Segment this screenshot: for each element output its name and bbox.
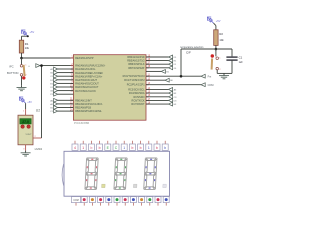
LM34 VOUT pin wire: [33, 137, 42, 139]
wire node to C1: [216, 48, 232, 50]
display digit 3 decimal point: [163, 184, 167, 187]
svg-text:3: 3: [23, 148, 25, 150]
node junction RA0/LM34: [40, 64, 43, 67]
node junction R2/C-F/C1: [215, 48, 218, 51]
node junction C/F select: [180, 75, 183, 78]
terminal C3 (lower-right group): [146, 96, 168, 98]
push button C/F (SW2): [215, 49, 217, 56]
terminal (RA0 sensor input): [36, 64, 40, 68]
svg-text:RA0/AN0/ULPWU/C12IN0-: RA0/AN0/ULPWU/C12IN0-: [75, 65, 105, 68]
terminal E1 (right group): [146, 60, 168, 62]
capacitor C1: [226, 57, 237, 60]
svg-text:COM: COM: [73, 200, 78, 202]
display digit 1 decimal point: [102, 184, 106, 187]
resistor R2: [214, 30, 218, 46]
terminal B0: [146, 79, 165, 81]
svg-text:C3: C3: [174, 97, 178, 99]
svg-text:b: b: [164, 146, 166, 150]
svg-text:RB4/AN11/P1D: RB4/AN11/P1D: [127, 56, 144, 59]
svg-text:10k: 10k: [25, 46, 30, 50]
wire junction to PIC pin RE3/MCLR: [22, 57, 74, 59]
svg-text:1: 1: [23, 110, 25, 112]
svg-text:C1: C1: [239, 55, 243, 59]
terminal B3 (lower-right group): [146, 92, 168, 94]
wire terminal to RA0: [40, 65, 73, 67]
svg-text:RB7/ICSPDAT: RB7/ICSPDAT: [128, 67, 145, 70]
svg-text:4: 4: [74, 146, 76, 150]
display digit 3: [144, 158, 157, 189]
svg-text:VOUT: VOUT: [26, 134, 33, 136]
wire power to LM34 VS pin: [25, 103, 27, 109]
terminal B1 (right, short): [146, 70, 161, 72]
svg-text:RA4/T0CKI/C1OUT: RA4/T0CKI/C1OUT: [75, 79, 97, 82]
svg-text:RC6/TX/CK: RC6/TX/CK: [132, 99, 145, 102]
display top pins with state boxes: [74, 141, 76, 144]
svg-text:1: 1: [123, 146, 125, 150]
svg-text:b: b: [156, 146, 158, 150]
svg-text:RA5/AN4/SS/C2OUT: RA5/AN4/SS/C2OUT: [75, 83, 99, 86]
svg-text:G2: G2: [50, 91, 54, 93]
terminal D1 (right group): [146, 56, 168, 58]
display digit 2: [114, 158, 127, 189]
svg-text:BUTTON: BUTTON: [7, 71, 18, 75]
svg-text:≡: ≡: [28, 65, 30, 68]
svg-text:temperature selection: temperature selection: [180, 46, 204, 49]
svg-text:U2: U2: [36, 109, 40, 113]
svg-text:RA2/AN2/VREF-/CVREF: RA2/AN2/VREF-/CVREF: [75, 72, 103, 75]
svg-text:C1: C1: [50, 111, 54, 113]
wire C1 bottom loop: [231, 60, 233, 73]
svg-text:b: b: [131, 146, 133, 150]
svg-text:RB3/AN9/PGM/C12IN2-: RB3/AN9/PGM/C12IN2-: [75, 110, 102, 113]
LM34 down button: [27, 125, 31, 129]
svg-text:B3: B3: [174, 93, 177, 95]
microcontroller U1 PIC16F886 body: [73, 55, 146, 121]
wire LM34 VOUT up to RA0 node: [41, 66, 43, 138]
display body (7SEG-MPX3): [64, 151, 170, 196]
svg-text:RB1/AN10/P1C/C12IN3-: RB1/AN10/P1C/C12IN3-: [75, 103, 103, 106]
svg-text:RB6/ICSPCLK: RB6/ICSPCLK: [128, 63, 145, 66]
svg-text:RC5/SDO: RC5/SDO: [133, 96, 144, 99]
svg-text:RC3/SCK/SCL: RC3/SCK/SCL: [128, 88, 145, 91]
resistor R1: [19, 40, 23, 53]
wire power to R2: [214, 23, 216, 25]
svg-text:1: 1: [25, 65, 27, 67]
svg-text:LM34: LM34: [35, 147, 43, 151]
svg-text:b: b: [99, 146, 101, 150]
svg-text:D1: D1: [174, 57, 178, 59]
svg-text:RE3/MCLR/VPP: RE3/MCLR/VPP: [75, 57, 94, 60]
LM34 up button: [21, 125, 25, 129]
svg-text:RB0/AN12/INT: RB0/AN12/INT: [75, 99, 92, 102]
svg-text:+5V: +5V: [216, 19, 221, 23]
U1 left pin stubs: [71, 57, 74, 59]
svg-text:1: 1: [82, 146, 84, 150]
power terminal +5V (above U2): [19, 97, 25, 103]
svg-text:2: 2: [219, 69, 221, 71]
wire R1 bottom to junction: [21, 53, 23, 58]
display digit 1: [85, 158, 98, 189]
svg-text:+5V: +5V: [27, 100, 32, 104]
svg-text:PIC16F886: PIC16F886: [74, 121, 90, 125]
svg-text:1: 1: [148, 146, 150, 150]
display digit 2 decimal point: [133, 184, 137, 187]
svg-text:+5V: +5V: [30, 30, 35, 34]
svg-text:b: b: [140, 146, 142, 150]
svg-text:R1: R1: [25, 42, 29, 46]
terminal F1 (right group): [146, 63, 168, 65]
svg-text:F1: F1: [174, 64, 177, 66]
svg-text:E1: E1: [174, 61, 177, 63]
terminal G1 (right group): [146, 67, 168, 69]
svg-text:2: 2: [25, 75, 27, 77]
svg-text:RB5/AN13/T1G: RB5/AN13/T1G: [127, 60, 144, 63]
svg-text:B1: B1: [166, 71, 169, 73]
wire RC2 to COM terminal: [146, 84, 201, 86]
display common bracket: [62, 164, 64, 186]
ground (LM34): [25, 151, 27, 153]
terminal Fm: [201, 74, 205, 78]
LM34 GND pin wire: [25, 145, 27, 151]
svg-text:G1: G1: [174, 68, 178, 70]
wire button to ground: [21, 76, 23, 85]
wire drop to Fm row: [180, 49, 182, 76]
ground (C/F network): [223, 73, 225, 75]
terminal A3 (lower-right group): [146, 88, 168, 90]
U1 right pin stubs: [146, 56, 149, 58]
svg-text:1: 1: [219, 58, 221, 60]
wire R2 bottom to node: [215, 45, 217, 49]
svg-text:RA3/AN3/VREF+/C1IN+: RA3/AN3/VREF+/C1IN+: [75, 75, 103, 78]
LM34 display screen: [20, 119, 31, 124]
display bottom pins with state boxes: [71, 197, 80, 203]
ground (IFC button): [21, 85, 23, 87]
svg-text:D2: D2: [50, 80, 54, 82]
svg-text:C/F: C/F: [186, 51, 191, 55]
svg-text:D3: D3: [174, 100, 178, 102]
svg-text:IFC: IFC: [9, 64, 14, 68]
node junction R1/button/MCLR: [20, 57, 23, 60]
push button IFC (SW1): [21, 58, 23, 65]
svg-text:B0: B0: [170, 80, 173, 82]
wire node to left drop: [181, 48, 216, 50]
svg-text:RC2/P1A/CCP1: RC2/P1A/CCP1: [127, 84, 145, 87]
svg-text:A3: A3: [174, 88, 177, 91]
terminal E3 (lower-right group): [146, 103, 168, 105]
svg-text:RA1/AN1/C12IN1-: RA1/AN1/C12IN1-: [75, 68, 96, 71]
svg-text:RB2/AN8/P1B: RB2/AN8/P1B: [75, 107, 91, 110]
svg-text:RC4/SDI/SDA: RC4/SDI/SDA: [129, 92, 145, 95]
terminal D3 (lower-right group): [146, 99, 168, 101]
svg-text:RC1/T1OSI/CCP2: RC1/T1OSI/CCP2: [124, 79, 145, 82]
svg-text:Fm: Fm: [208, 75, 212, 78]
wire power to R1 top: [22, 35, 28, 37]
svg-text:RA7/OSC1/CLKIN: RA7/OSC1/CLKIN: [75, 90, 96, 93]
svg-text:C2: C2: [50, 76, 54, 78]
svg-text:RA6/OSC2/CLKOUT: RA6/OSC2/CLKOUT: [75, 86, 99, 89]
svg-text:R2: R2: [219, 32, 223, 36]
power terminal +5V (top-right): [207, 17, 213, 23]
svg-text:1uF: 1uF: [239, 61, 244, 64]
power terminal +5V (top-left): [22, 30, 28, 36]
svg-text:b: b: [90, 146, 92, 150]
terminal COM: [201, 83, 205, 87]
svg-text:10k: 10k: [219, 38, 224, 42]
svg-text:RC0/T1OSO/T1CKI: RC0/T1OSO/T1CKI: [123, 75, 145, 78]
svg-text:RC7/RX/DT: RC7/RX/DT: [131, 103, 145, 106]
svg-text:COM: COM: [208, 84, 214, 87]
temperature sensor U2 LM34 body: [18, 115, 33, 145]
svg-text:E3: E3: [174, 104, 177, 106]
svg-text:27.0: 27.0: [22, 120, 29, 124]
wire RC0 to Fm terminal: [146, 75, 201, 77]
